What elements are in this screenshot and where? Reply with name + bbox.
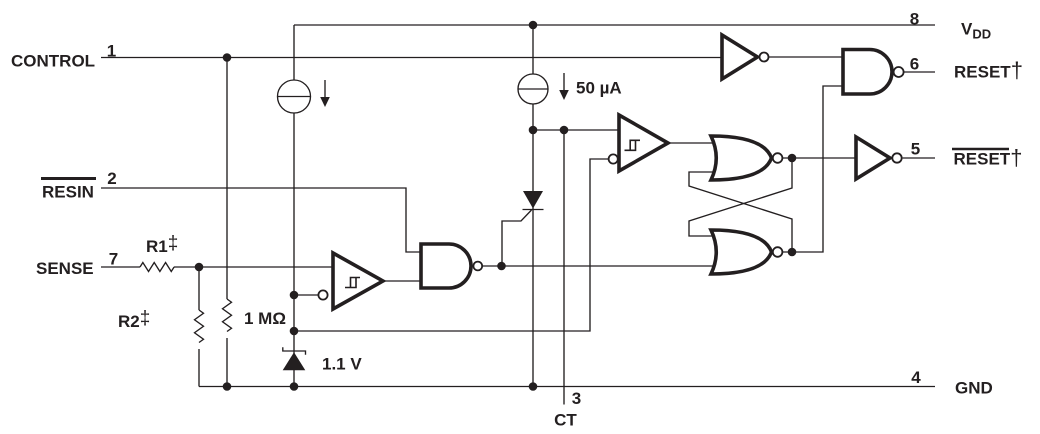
svg-text:3: 3 [572, 389, 581, 408]
svg-text:7: 7 [109, 250, 118, 269]
svg-text:1: 1 [107, 42, 116, 61]
svg-text:RESIN: RESIN [42, 183, 94, 202]
svg-text:SENSE: SENSE [36, 259, 94, 278]
svg-text:1 MΩ: 1 MΩ [244, 309, 286, 328]
svg-text:4: 4 [911, 368, 921, 387]
svg-text:R2‡: R2‡ [118, 308, 150, 331]
svg-text:CONTROL: CONTROL [11, 52, 95, 71]
svg-text:50 µA: 50 µA [576, 79, 622, 98]
svg-text:R1‡: R1‡ [146, 233, 178, 256]
svg-text:8: 8 [910, 10, 919, 29]
svg-text:GND: GND [955, 379, 993, 398]
svg-text:CT: CT [554, 411, 577, 430]
svg-text:5: 5 [911, 140, 920, 159]
svg-text:1.1 V: 1.1 V [322, 355, 362, 374]
svg-text:2: 2 [107, 169, 116, 188]
svg-text:6: 6 [910, 55, 919, 74]
